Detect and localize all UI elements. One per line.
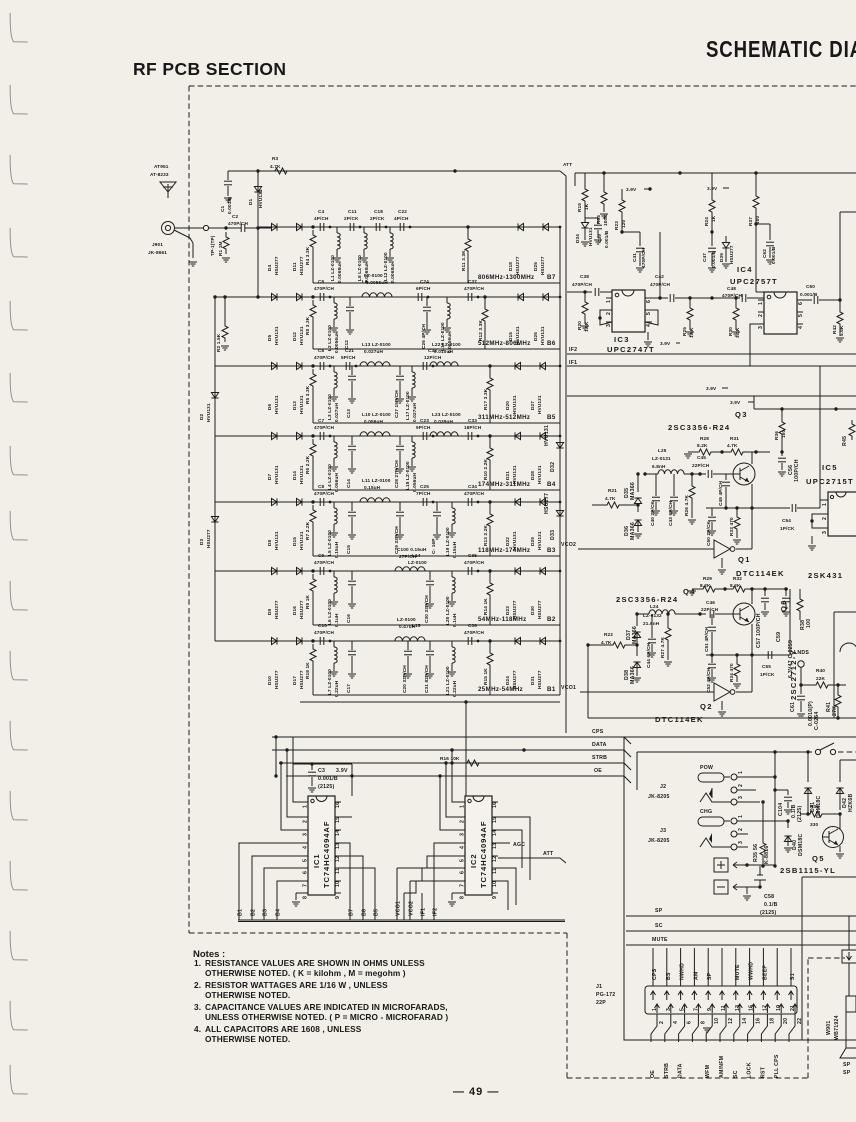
svg-text:470P/CH: 470P/CH — [641, 247, 646, 268]
svg-text:3.9V: 3.9V — [706, 386, 717, 391]
svg-text:VCO2: VCO2 — [409, 901, 415, 916]
svg-text:4P/CH: 4P/CH — [314, 216, 329, 221]
svg-text:470P/CH: 470P/CH — [314, 425, 335, 430]
svg-text:B5: B5 — [374, 909, 380, 916]
svg-text:C100 0.15uH: C100 0.15uH — [397, 547, 427, 552]
svg-text:IF1: IF1 — [421, 908, 427, 916]
diode D32 HVU131 — [544, 425, 564, 472]
svg-text:AT951: AT951 — [154, 164, 169, 169]
svg-text:L25: L25 — [658, 448, 667, 453]
svg-text:D18: D18 — [508, 262, 513, 271]
svg-text:22K: 22K — [816, 676, 826, 681]
svg-text:C41: C41 — [632, 253, 637, 262]
diode D8 HVU131 — [267, 498, 279, 550]
svg-text:L22 LZ-0100: L22 LZ-0100 — [432, 342, 461, 347]
svg-text:0.15uH: 0.15uH — [452, 541, 457, 558]
svg-text:LNDS: LNDS — [794, 650, 809, 656]
svg-text:470P/CH: 470P/CH — [722, 293, 743, 298]
svg-text:R1? 3.3K: R1? 3.3K — [483, 388, 488, 410]
wires IC1 outputs B7-B5 — [341, 843, 380, 920]
svg-text:470P/CH: 470P/CH — [314, 355, 335, 360]
diode D11 HSU277 — [292, 223, 304, 275]
svg-text:C45: C45 — [697, 455, 706, 460]
svg-text:D14: D14 — [292, 471, 297, 480]
svg-text:14: 14 — [335, 830, 341, 836]
svg-text:R26 4.7K: R26 4.7K — [684, 495, 689, 516]
wire CPS line — [272, 729, 624, 737]
svg-text:C20 33P/CH: C20 33P/CH — [402, 665, 407, 693]
svg-text:C55: C55 — [762, 664, 771, 669]
diode D36 MA366 — [624, 505, 642, 540]
svg-text:0.056uH: 0.056uH — [364, 419, 383, 424]
capacitor series x425 band B3 — [423, 498, 434, 506]
svg-text:VCO1: VCO1 — [561, 685, 576, 691]
svg-text:10: 10 — [714, 1018, 720, 1024]
svg-text:IC2: IC2 — [469, 853, 478, 868]
resistor R26 4.7K — [684, 472, 696, 524]
inductor L20 LZ-0100 0.1uH — [445, 571, 457, 627]
svg-text:16: 16 — [756, 1018, 762, 1024]
capacitor C52 4P/CH — [706, 655, 716, 693]
connector J1 PG-172 22P — [645, 986, 803, 1024]
svg-text:0.15uH: 0.15uH — [364, 485, 381, 490]
svg-text:0.039uH: 0.039uH — [434, 419, 453, 424]
svg-text:9: 9 — [492, 896, 498, 899]
capacitor C50 2P/CK — [706, 508, 716, 546]
svg-text:R12 3.3K: R12 3.3K — [478, 320, 483, 341]
ground IC2 pin8 — [448, 893, 459, 906]
svg-text:L24: L24 — [650, 604, 659, 609]
title SCHEMATIC DIAGRAM (clipped) — [706, 36, 856, 62]
wire VCO2 line — [561, 542, 714, 549]
svg-text:D10: D10 — [267, 676, 272, 685]
svg-text:C61: C61 — [790, 702, 796, 712]
capacitor C39 0.001/B — [585, 218, 609, 248]
svg-text:L5 LZ-0100: L5 LZ-0100 — [327, 530, 332, 556]
svg-text:9: 9 — [335, 896, 341, 899]
svg-text:R15 1K: R15 1K — [483, 668, 488, 685]
inductor coil band B6 — [362, 273, 392, 297]
svg-text:4: 4 — [673, 1021, 679, 1024]
svg-text:L4 LZ-0100: L4 LZ-0100 — [327, 464, 332, 490]
inverter Q2 DTC114EK — [714, 655, 752, 716]
wire MUTE line — [626, 937, 856, 945]
svg-text:2: 2 — [738, 784, 744, 787]
resistor R37 100 — [748, 173, 760, 226]
wire input node — [209, 226, 240, 229]
inductor coil2 band B5 — [430, 342, 461, 366]
svg-text:6: 6 — [687, 1021, 693, 1024]
svg-text:0.1/B: 0.1/B — [764, 902, 778, 908]
svg-text:HVU131: HVU131 — [299, 326, 304, 345]
resistor R10 2.2K — [483, 434, 493, 490]
wire IC3 feedback — [598, 310, 658, 346]
svg-text:C58: C58 — [764, 894, 774, 900]
svg-text:UPC2757T: UPC2757T — [730, 277, 778, 286]
svg-text:LOCK: LOCK — [747, 1062, 753, 1078]
svg-text:100P/CH: 100P/CH — [794, 459, 800, 482]
svg-text:IC5: IC5 — [822, 463, 838, 472]
capacitor C38 470P/CH — [567, 274, 612, 296]
supply rail 3.9V vco — [730, 396, 856, 411]
svg-text:6: 6 — [460, 871, 466, 874]
inductor L6 LZ-0100 0.1uH — [327, 571, 339, 627]
rail band B2 — [313, 570, 561, 625]
diode D24 HSU277 — [505, 637, 521, 689]
svg-text:HVU131: HVU131 — [274, 395, 279, 414]
svg-text:L23 LZ-0100: L23 LZ-0100 — [432, 412, 461, 417]
capacitor C51 4P/CH — [704, 614, 716, 657]
resistor R9 1K — [305, 574, 316, 625]
svg-text:0.010uH: 0.010uH — [434, 349, 453, 354]
svg-text:D25: D25 — [533, 262, 538, 271]
label band B2 54MHz-118MHz — [478, 616, 556, 623]
svg-text:C8: C8 — [318, 484, 325, 489]
svg-text:HVU131: HVU131 — [537, 395, 542, 414]
diode D33 HSU277 — [544, 493, 564, 540]
wire Q4 emitter node — [706, 654, 790, 656]
resistor R6 2.2K — [305, 439, 316, 490]
wire STRB line — [279, 755, 624, 763]
svg-text:470P/CH: 470P/CH — [464, 560, 485, 565]
svg-text:16: 16 — [335, 802, 341, 808]
diode D27 HVU131 — [530, 362, 546, 414]
svg-text:4.7K: 4.7K — [270, 164, 281, 169]
diode D2 HVU131 — [199, 393, 219, 423]
svg-text:D17: D17 — [292, 676, 297, 685]
svg-text:TP-1(TP): TP-1(TP) — [210, 235, 215, 256]
wire J1 bottom bus — [624, 1028, 800, 1040]
resistor R23 120 — [614, 189, 626, 234]
svg-text:IF1: IF1 — [569, 360, 577, 366]
svg-text:HVU131: HVU131 — [588, 227, 593, 246]
svg-text:12: 12 — [492, 856, 498, 862]
svg-text:3.9V: 3.9V — [626, 187, 637, 192]
svg-text:C2: C2 — [232, 214, 239, 219]
svg-text:HVU131: HVU131 — [274, 326, 279, 345]
svg-text:0.22uH: 0.22uH — [452, 680, 457, 697]
svg-text:(2125): (2125) — [318, 784, 335, 790]
svg-text:R9 1K: R9 1K — [305, 594, 310, 609]
svg-text:R27 4.7K: R27 4.7K — [660, 637, 665, 658]
resistor R3 4.7K — [268, 156, 294, 174]
svg-text:R22: R22 — [604, 632, 613, 637]
transistor Q4 2SC3356 — [733, 589, 755, 657]
svg-text:54MHz-118MHz: 54MHz-118MHz — [478, 616, 527, 623]
labels band B7 series caps — [314, 209, 409, 221]
capacitor C20 33P/CH — [402, 641, 412, 693]
capacitor series x322 band B1 — [320, 637, 331, 645]
capacitor C3 0.001/B (2125) — [293, 737, 345, 792]
svg-text:CAPACITANCE VALUES ARE INDI: CAPACITANCE VALUES ARE INDICATED IN MICR… — [205, 1002, 448, 1012]
svg-text:806MHz-1300MHz: 806MHz-1300MHz — [478, 274, 534, 281]
svg-text:0.47uH: 0.47uH — [399, 624, 416, 629]
wire band B2 main — [215, 569, 560, 572]
ground IC1 pin8 — [292, 893, 302, 906]
svg-text:AM/NFM: AM/NFM — [719, 1056, 725, 1078]
svg-text:C50 2P/CK: C50 2P/CK — [706, 520, 711, 546]
svg-text:R40: R40 — [816, 668, 825, 673]
resistor R27 4.7K — [660, 612, 672, 666]
diode D23 HSU277 — [505, 567, 521, 619]
svg-text:HSU277: HSU277 — [299, 600, 304, 619]
svg-text:HSU277: HSU277 — [540, 256, 545, 275]
resistor R22 4.7K — [586, 632, 638, 648]
label band B1 25MHz-54MHz — [478, 686, 556, 693]
svg-text:L13 LZ-0100: L13 LZ-0100 — [362, 342, 391, 347]
svg-text:D16: D16 — [292, 606, 297, 615]
svg-text:R35 56: R35 56 — [753, 844, 759, 862]
svg-text:D15: D15 — [292, 537, 297, 546]
title RF PCB SECTION — [133, 59, 286, 79]
label IC5 — [806, 463, 854, 486]
svg-text:JK-8205: JK-8205 — [648, 838, 670, 844]
label band B4 174MHz-311MHz — [478, 481, 556, 488]
svg-text:1: 1 — [606, 300, 612, 303]
label Q5 — [780, 854, 836, 875]
svg-text:D31: D31 — [530, 676, 535, 685]
svg-text:HSU277: HSU277 — [274, 256, 279, 275]
svg-text:SP: SP — [655, 908, 663, 914]
svg-text:0.0068uH: 0.0068uH — [337, 261, 342, 283]
svg-text:3.1K: 3.1K — [735, 327, 740, 338]
svg-text:R33 470: R33 470 — [729, 517, 734, 536]
svg-text:1.5K: 1.5K — [689, 327, 694, 338]
svg-text:C5: C5 — [318, 279, 325, 284]
wire right vertical — [840, 212, 856, 300]
svg-text:B4: B4 — [547, 481, 556, 488]
svg-text:100: 100 — [755, 215, 760, 224]
svg-text:8: 8 — [460, 896, 466, 899]
diode D35 MA366 — [624, 472, 642, 503]
svg-text:TC74HC4094AF: TC74HC4094AF — [479, 821, 488, 888]
svg-text:9P/CH: 9P/CH — [416, 425, 431, 430]
capacitor series x348 band B5 — [346, 362, 357, 370]
svg-text:12P/CH: 12P/CH — [424, 355, 442, 360]
svg-text:311MHz-512MHz: 311MHz-512MHz — [478, 414, 530, 421]
svg-text:R10 2.2K: R10 2.2K — [483, 459, 488, 480]
svg-text:L8 LZ-0100: L8 LZ-0100 — [357, 255, 362, 281]
svg-text:HSU277: HSU277 — [206, 529, 211, 548]
svg-text:2SC3356-R24: 2SC3356-R24 — [616, 595, 678, 604]
diode D4 HSU277 — [267, 223, 279, 275]
svg-text:MA366: MA366 — [630, 666, 636, 684]
svg-text:C24: C24 — [420, 279, 429, 284]
inductor L3 LZ-0100 0.027uH — [327, 366, 339, 422]
resistor R5 3.3K — [305, 369, 316, 423]
resistor R7 2.2K — [305, 505, 316, 556]
supply 3.9V node a — [626, 187, 652, 192]
svg-text:0.0056uH: 0.0056uH — [366, 280, 388, 285]
svg-text:3.9V: 3.9V — [707, 186, 718, 191]
svg-text:L20 LZ-0100: L20 LZ-0100 — [445, 596, 450, 625]
svg-text:C48: C48 — [727, 286, 736, 291]
svg-text:C21: C21 — [345, 348, 354, 353]
capacitor series x322 band B4 — [320, 432, 331, 440]
svg-text:C59: C59 — [776, 632, 782, 642]
rail band B4 — [313, 435, 561, 490]
capacitor C49 4P/CH — [718, 474, 730, 510]
wire band B3 main — [215, 500, 560, 503]
capacitor C48 470P/CH — [722, 286, 764, 302]
capacitor C59 6.3V47 C-0259 — [776, 589, 794, 678]
node input bus — [256, 226, 272, 229]
inductor L5 LZ-0100 0.15uH — [327, 502, 339, 558]
capacitor C41 470P/CH — [622, 232, 646, 272]
svg-text:4P/CH: 4P/CH — [394, 216, 409, 221]
svg-text:C-0264: C-0264 — [814, 711, 820, 730]
wire Q3 emitter node — [706, 507, 790, 509]
resistor R20 1.5K — [577, 290, 589, 332]
svg-text:7P/CH: 7P/CH — [416, 491, 431, 496]
note 3 — [194, 1002, 448, 1022]
svg-text:8.2K: 8.2K — [697, 443, 708, 448]
svg-text:C42: C42 — [655, 274, 664, 279]
wire ATT bus right — [565, 186, 567, 733]
inductor coil band B5 — [360, 342, 391, 366]
svg-text:DATA: DATA — [678, 1063, 684, 1078]
capacitor C45 22P/CH — [692, 455, 734, 478]
note 1 — [194, 958, 425, 978]
svg-text:R29: R29 — [703, 576, 712, 581]
svg-text:2: 2 — [822, 517, 828, 520]
svg-text:14: 14 — [492, 830, 498, 836]
capacitor C16 shunt — [346, 571, 356, 623]
svg-text:3: 3 — [460, 833, 466, 836]
svg-text:— 49 —: — 49 — — [453, 1086, 499, 1098]
svg-text:HSU277: HSU277 — [544, 493, 550, 514]
capacitor series x352 band B7 — [350, 223, 361, 231]
svg-text:R1 1M: R1 1M — [218, 241, 223, 256]
wire OE line — [286, 768, 624, 776]
svg-text:B2: B2 — [547, 616, 556, 623]
svg-text:HZK6B: HZK6B — [848, 793, 854, 812]
svg-text:VCO1: VCO1 — [396, 901, 402, 916]
box Q6 right edge — [834, 612, 856, 718]
svg-text:6: 6 — [303, 871, 309, 874]
svg-text:Q1: Q1 — [738, 555, 751, 564]
svg-text:R19: R19 — [577, 203, 582, 212]
svg-text:0.001/B: 0.001/B — [318, 776, 338, 782]
label Q3 type 2SC3356-R24 — [668, 423, 730, 432]
resistor R28 8.2K — [684, 436, 716, 458]
svg-text:R23: R23 — [614, 221, 619, 230]
svg-text:HVU131: HVU131 — [537, 531, 542, 550]
diode D13 HVU131 — [292, 362, 304, 414]
svg-text:HVU131: HVU131 — [274, 531, 279, 550]
capacitor C42 470P/CH — [650, 274, 700, 302]
capacitor series x402 band B7 — [400, 223, 411, 231]
inductor L21 LZ-0100 0.22uH — [445, 641, 457, 697]
capacitor C60 0.001/B — [800, 284, 842, 304]
capacitor C47 0.001/B — [702, 230, 716, 272]
svg-text:470P/CH: 470P/CH — [464, 286, 485, 291]
svg-text:D5: D5 — [267, 334, 272, 341]
svg-text:3.9V: 3.9V — [730, 400, 741, 405]
svg-text:1: 1 — [303, 805, 309, 808]
diode D10 HSU277 — [267, 637, 279, 689]
svg-text:OE: OE — [594, 768, 602, 774]
svg-text:Q6: Q6 — [779, 599, 788, 612]
svg-text:C34: C34 — [468, 484, 477, 489]
svg-text:R18 1K: R18 1K — [305, 662, 310, 679]
svg-text:C60: C60 — [806, 284, 815, 289]
wire band B6 main — [215, 295, 560, 298]
resistor R36 100 — [774, 409, 786, 447]
svg-text:D7: D7 — [267, 473, 272, 480]
svg-text:UNLESS OTHERWISE NOTED. (: UNLESS OTHERWISE NOTED. ( P = MICRO - MI… — [205, 1012, 448, 1022]
svg-text:C14: C14 — [346, 479, 351, 488]
svg-text:470P/CH: 470P/CH — [314, 560, 335, 565]
svg-text:LZ-0100: LZ-0100 — [364, 273, 383, 278]
diode D21 HVU131 — [505, 432, 521, 484]
capacitor series x420 band B6 — [418, 293, 429, 301]
svg-text:STRB: STRB — [664, 1063, 670, 1078]
capacitor C55 1P/CK — [760, 589, 790, 677]
bus left band-select — [213, 295, 216, 641]
svg-text:470P/CH: 470P/CH — [314, 630, 335, 635]
diode D40 DSM18C — [760, 819, 804, 856]
label band B3 118MHz-174MHz — [478, 547, 556, 554]
label Q4 type 2SC3356-R24 — [616, 595, 678, 604]
resistor R11 3.3K — [461, 225, 471, 283]
svg-text:D4: D4 — [267, 264, 272, 271]
diode D15 HVU131 — [508, 293, 524, 345]
label IC3 — [607, 335, 655, 354]
svg-text:R5 3.3K: R5 3.3K — [305, 385, 310, 404]
svg-text:470P/CH: 470P/CH — [572, 282, 593, 287]
svg-text:C43 6P/CH: C43 6P/CH — [668, 500, 673, 526]
top rail to ATT — [258, 169, 457, 172]
svg-text:HVU131: HVU131 — [258, 189, 263, 208]
svg-text:18P/CH: 18P/CH — [464, 425, 482, 430]
svg-text:C62: C62 — [762, 249, 767, 258]
svg-text:C6: C6 — [318, 348, 325, 353]
svg-text:IC1: IC1 — [312, 853, 321, 868]
svg-text:TC74HC4094AF: TC74HC4094AF — [322, 821, 331, 888]
svg-text:C47: C47 — [702, 253, 707, 262]
diode D31 HSU277 — [530, 637, 546, 689]
power section box — [624, 737, 856, 1040]
svg-text:C17: C17 — [346, 684, 351, 693]
wire VCO1 line — [561, 685, 714, 692]
diode D30 HSU277 — [530, 567, 546, 619]
capacitor C62 0.001/B — [756, 224, 776, 264]
svg-text:C37: C37 — [468, 279, 477, 284]
svg-text:10: 10 — [492, 881, 498, 887]
wire right drop to speaker — [848, 916, 850, 996]
svg-text:6P/CH: 6P/CH — [416, 286, 431, 291]
wire riser to VCO bundle — [300, 700, 560, 796]
inductor L7 LZ-0100 0.22uH — [327, 641, 339, 697]
capacitor C15 shunt — [346, 502, 356, 554]
resistor R32 8.2K — [720, 576, 788, 592]
svg-text:Q3: Q3 — [735, 410, 748, 419]
svg-text:1: 1 — [460, 805, 466, 808]
wire vco bottom — [588, 645, 856, 720]
svg-text:3: 3 — [606, 324, 612, 327]
label Q4 — [683, 587, 696, 596]
svg-text:1.5K: 1.5K — [584, 321, 589, 332]
capacitor C13 shunt — [346, 366, 356, 418]
svg-text:D1: D1 — [248, 198, 253, 205]
capacitor C46 22P/CH — [701, 600, 734, 618]
svg-text:HSU277: HSU277 — [729, 245, 734, 264]
svg-text:B7: B7 — [349, 909, 355, 916]
resistor R18 1K — [305, 644, 316, 695]
svg-text:L1 LZ-0100: L1 LZ-0100 — [330, 255, 335, 281]
svg-text:CPS: CPS — [592, 729, 604, 735]
